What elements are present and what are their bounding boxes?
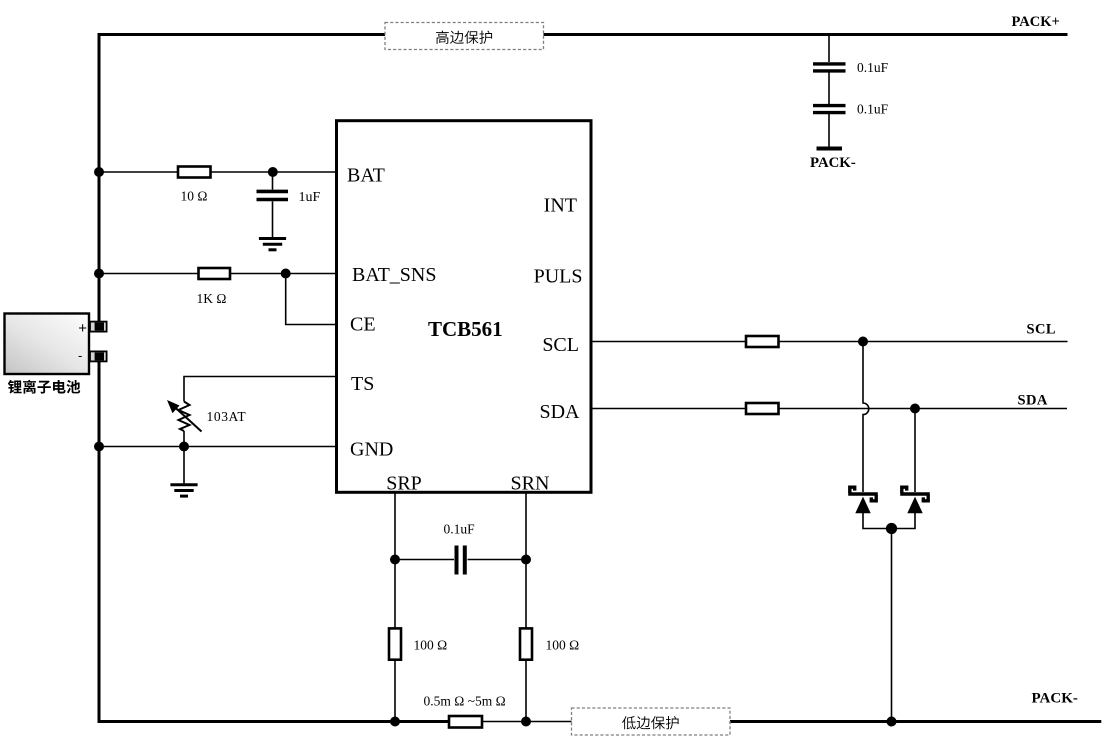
- wire bottom rail mid (thin): [480, 721, 572, 723]
- wire SDA to zener D2: [914, 409, 916, 493]
- wire C1 to C2: [828, 73, 830, 105]
- wire PACK+ rail to C1: [828, 35, 830, 63]
- svg-text:INT: INT: [544, 194, 577, 216]
- zener diode D1 anode triangle: [855, 497, 870, 514]
- block 低边保护 (low-side protection) box: [572, 708, 731, 735]
- block 高边保护 (high-side protection) box: [385, 23, 544, 50]
- svg-text:SCL: SCL: [1027, 321, 1056, 337]
- wire D1 anode to joint: [863, 512, 892, 529]
- battery cell body: [5, 314, 90, 375]
- wire SCL (pin to right edge): [591, 341, 1068, 343]
- wire TS (pin to thermistor): [184, 377, 337, 402]
- ground (below thermistor): [183, 447, 185, 484]
- svg-text:0.1uF: 0.1uF: [857, 60, 889, 75]
- svg-text:SDA: SDA: [1018, 392, 1048, 408]
- resistor R 10Ω body: [178, 167, 211, 178]
- wire bottom rail left (thick): [98, 720, 453, 723]
- junction dot SRP/cap: [390, 555, 400, 565]
- wire zener joint to bottom rail: [891, 529, 893, 722]
- svg-text:TCB561: TCB561: [428, 317, 503, 341]
- wire SDA (pin to right edge): [591, 408, 1067, 410]
- svg-text:1uF: 1uF: [299, 190, 321, 205]
- junction dot SCL/zener: [858, 337, 868, 347]
- wire GND (left rail to pin): [99, 446, 337, 448]
- junction dot SDA/zener: [910, 404, 920, 414]
- svg-text:PULS: PULS: [534, 266, 583, 288]
- svg-text:-: -: [78, 348, 82, 363]
- label 低边保护 text: [622, 716, 679, 729]
- svg-text:103AT: 103AT: [207, 409, 247, 424]
- wire left rail upper (battery +): [98, 35, 101, 324]
- svg-text:0.1uF: 0.1uF: [857, 102, 889, 117]
- svg-text:SRP: SRP: [386, 472, 422, 494]
- battery terminal - (bottom): [90, 351, 107, 361]
- svg-text:PACK-: PACK-: [810, 155, 856, 171]
- svg-text:10 Ω: 10 Ω: [181, 189, 208, 204]
- wire SRP-SRN cap link left: [395, 559, 454, 561]
- zener diode D2 cathode bar: [900, 487, 930, 501]
- wire C2 to PACK- terminal: [828, 114, 830, 147]
- junction dot zeners/bottom rail: [887, 717, 897, 727]
- junction dot BAT / left rail: [94, 167, 104, 177]
- junction dot SRN/bottom rail: [521, 717, 531, 727]
- terminal PACK- bar: [817, 147, 843, 151]
- svg-text:TS: TS: [351, 373, 374, 395]
- wire PACK+ top rail: [98, 33, 1068, 36]
- label 高边保护 text: [436, 31, 492, 44]
- svg-text:SCL: SCL: [542, 334, 579, 356]
- zener diode D2 anode triangle: [907, 497, 922, 514]
- wire BAT_SNS (left rail to pin): [99, 273, 337, 275]
- junction dot zener joint: [886, 523, 897, 534]
- capacitor C 0.1uF (lower) plates: [813, 106, 846, 113]
- thermistor RT 103AT arrow: [174, 406, 202, 432]
- battery terminal + (top): [90, 322, 107, 332]
- junction dot BAT_SNS/CE: [281, 269, 291, 279]
- resistor R 1KΩ body: [199, 268, 231, 279]
- wire thermistor to GND rail: [183, 431, 185, 447]
- svg-text:0.1uF: 0.1uF: [444, 522, 476, 537]
- svg-text:1K Ω: 1K Ω: [197, 291, 227, 306]
- wire CE (from BAT_SNS junction to CE pin): [286, 274, 337, 325]
- svg-text:BAT_SNS: BAT_SNS: [352, 264, 436, 286]
- svg-text:100 Ω: 100 Ω: [546, 638, 580, 653]
- junction dot BAT_SNS / left rail: [94, 269, 104, 279]
- wire SCL to zener D1 (with hop over SDA): [863, 342, 869, 493]
- svg-text:SRN: SRN: [511, 472, 550, 494]
- wire SRP-SRN cap link right: [468, 559, 527, 561]
- svg-text:GND: GND: [350, 439, 393, 461]
- svg-text:SDA: SDA: [539, 401, 580, 423]
- svg-text:PACK-: PACK-: [1032, 690, 1078, 706]
- wire SRP (pin to bottom rail): [394, 492, 396, 721]
- svg-text:0.5m Ω ~5m Ω: 0.5m Ω ~5m Ω: [424, 694, 506, 709]
- op-amp U1 TCB561 body: [337, 121, 592, 493]
- svg-text:100 Ω: 100 Ω: [414, 638, 448, 653]
- resistor R (SCL series) body: [746, 336, 779, 347]
- junction dot GND / left rail: [94, 442, 104, 452]
- junction dot SRN/cap: [521, 555, 531, 565]
- junction dot GND/thermistor: [179, 442, 189, 452]
- wire BAT (left rail to pin): [99, 171, 337, 173]
- svg-text:CE: CE: [350, 314, 376, 336]
- capacitor C 1uF stem top: [272, 172, 274, 190]
- resistor R shunt 0.5mΩ~5mΩ body: [449, 716, 482, 728]
- resistor R (SDA series) body: [746, 403, 779, 414]
- wire D2 anode to joint: [892, 512, 916, 529]
- svg-text:BAT: BAT: [347, 164, 385, 186]
- wire left rail lower (battery -): [98, 360, 101, 722]
- resistor R 100Ω (SRN) body: [520, 628, 532, 659]
- resistor R 100Ω (SRP) body: [389, 628, 401, 659]
- junction dot BAT/1uF: [268, 167, 278, 177]
- wire SRN (pin to bottom rail): [525, 492, 527, 721]
- svg-text:PACK+: PACK+: [1012, 14, 1060, 30]
- capacitor C 0.1uF (sense filter) plates: [457, 546, 465, 575]
- wire bottom rail right (thick): [729, 720, 1101, 723]
- svg-text:+: +: [78, 320, 87, 337]
- thermistor RT 103AT zigzag: [179, 402, 190, 432]
- label 锂离子电池 (Li-ion battery): [8, 380, 80, 394]
- zener diode D1 cathode bar: [848, 487, 878, 501]
- junction dot SRP/bottom rail: [390, 717, 400, 727]
- capacitor C 1uF plates: [257, 191, 289, 199]
- capacitor C 0.1uF (upper) plates: [813, 64, 846, 71]
- ground (below 1uF cap): [272, 201, 274, 237]
